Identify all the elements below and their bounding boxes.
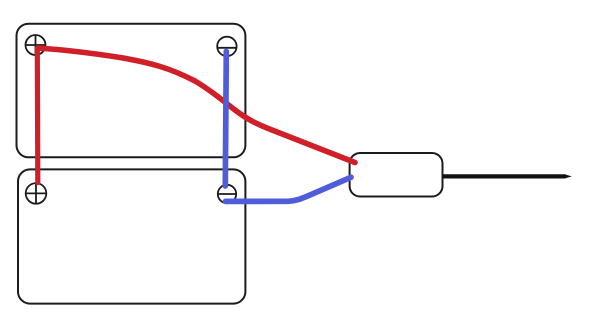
wire: blue jumper B1- to B2- (vertical)	[225, 52, 226, 187]
terminal B2 positive (circle)	[26, 183, 47, 204]
battery B1 (top box)	[17, 24, 246, 158]
terminal B1 positive (circle)	[26, 35, 46, 55]
wire: black output lead from U1	[443, 174, 566, 178]
wire: blue lead B2- to U1	[226, 177, 352, 201]
terminal B1 positive (plus sign)	[26, 35, 46, 54]
battery B2 (bottom box)	[18, 169, 245, 303]
terminal B1 negative (minus sign)	[218, 47, 238, 49]
terminal B1 negative (circle)	[217, 37, 236, 56]
terminal B2 negative (circle)	[218, 185, 236, 203]
component U1 (inline fuse / connector capsule)	[350, 153, 443, 197]
wire: red jumper B1+ to B2+ (vertical)	[35, 49, 41, 183]
terminal B2 positive (plus sign)	[26, 184, 46, 203]
wire: red lead B1+ to U1 (curved)	[38, 48, 356, 163]
wire: pointed tip of black output lead	[565, 174, 572, 178]
terminal B2 negative (minus sign)	[218, 193, 237, 195]
